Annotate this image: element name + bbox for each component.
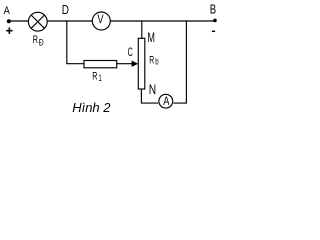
- svg-text:A: A: [4, 5, 11, 17]
- svg-text:M: M: [147, 30, 155, 45]
- svg-text:C: C: [128, 45, 133, 59]
- svg-text:R: R: [92, 70, 97, 82]
- svg-text:1: 1: [99, 73, 102, 83]
- svg-text:A: A: [163, 96, 169, 108]
- svg-text:Đ: Đ: [39, 38, 44, 48]
- svg-text:V: V: [97, 12, 103, 26]
- svg-text:D: D: [62, 2, 69, 17]
- svg-text:b: b: [155, 57, 158, 67]
- svg-text:Hình 2: Hình 2: [72, 100, 111, 115]
- svg-text:R: R: [33, 34, 38, 46]
- svg-text:N: N: [149, 82, 156, 97]
- svg-text:R: R: [149, 55, 154, 67]
- svg-text:B: B: [210, 2, 216, 16]
